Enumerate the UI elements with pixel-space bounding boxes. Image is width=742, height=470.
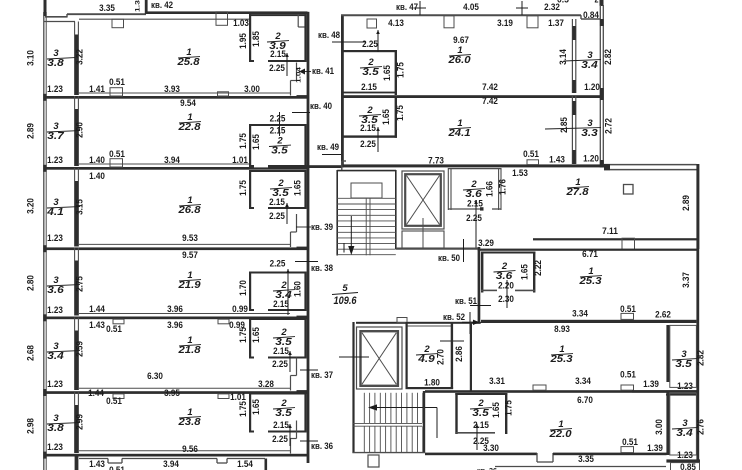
stair arrow down [350, 216, 352, 248]
bottom second line [495, 466, 666, 468]
svg-text:23.8: 23.8 [177, 417, 201, 428]
interior wall [74, 22, 76, 96]
entry step [536, 453, 538, 462]
svg-text:2.90: 2.90 [75, 122, 86, 138]
svg-text:1.75: 1.75 [238, 133, 249, 149]
svg-text:2.86: 2.86 [454, 346, 465, 362]
svg-text:1.65: 1.65 [382, 65, 393, 81]
svg-text:2.25: 2.25 [270, 259, 286, 270]
divider wall 26.0/3.4 [571, 19, 573, 93]
svg-text:25.3: 25.3 [549, 354, 573, 365]
east wall of west wing [307, 12, 310, 463]
svg-text:1.39: 1.39 [647, 443, 663, 454]
stair direction line [370, 407, 437, 409]
svg-text:2.25: 2.25 [269, 63, 285, 74]
svg-text:0.51: 0.51 [109, 149, 125, 160]
svg-text:1.76: 1.76 [498, 179, 509, 195]
room 2/3.6 box kv51 [481, 252, 483, 293]
interior wall [74, 168, 76, 247]
svg-text:21.8: 21.8 [177, 345, 201, 356]
stair treads upper [337, 197, 396, 199]
svg-text:7.42: 7.42 [482, 82, 498, 93]
svg-text:3.93: 3.93 [164, 84, 180, 95]
east wall of 27.8 [696, 164, 699, 249]
svg-text:0.51: 0.51 [109, 77, 125, 88]
svg-text:1.66: 1.66 [485, 181, 496, 197]
pier notch bottom [621, 447, 634, 453]
room 2/4.9 walls [406, 322, 408, 389]
svg-text:3.5: 3.5 [472, 408, 489, 419]
svg-text:1.39: 1.39 [643, 379, 659, 390]
svg-text:1.03: 1.03 [233, 18, 249, 29]
svg-text:3.8: 3.8 [47, 423, 64, 434]
svg-text:2.20: 2.20 [498, 281, 514, 292]
svg-text:1.65: 1.65 [251, 327, 262, 343]
svg-text:2.25: 2.25 [360, 139, 376, 150]
svg-text:2.89: 2.89 [26, 123, 37, 139]
svg-text:2.22: 2.22 [533, 260, 544, 276]
svg-text:26.0: 26.0 [447, 55, 471, 66]
svg-text:2.15: 2.15 [361, 82, 377, 93]
hall corridor wall east [478, 247, 481, 323]
svg-text:1.65: 1.65 [381, 109, 392, 125]
svg-text:25.3: 25.3 [578, 276, 602, 287]
small room box [249, 124, 251, 167]
svg-text:3.5: 3.5 [275, 408, 292, 419]
svg-text:25.8: 25.8 [176, 57, 200, 68]
svg-text:3.5: 3.5 [362, 67, 379, 78]
svg-text:3.22: 3.22 [75, 49, 86, 65]
svg-text:3.96: 3.96 [167, 320, 183, 331]
svg-text:1.23: 1.23 [47, 233, 63, 244]
svg-text:1.43: 1.43 [89, 459, 105, 470]
wall top of 25.3 [478, 249, 698, 251]
svg-text:1.75: 1.75 [238, 327, 249, 343]
svg-text:4.1: 4.1 [46, 207, 64, 218]
svg-text:1.75: 1.75 [396, 62, 407, 78]
divider wall 24.1/3.3 [571, 96, 573, 164]
elevator 2 leader [339, 356, 369, 358]
svg-text:2.59: 2.59 [75, 341, 86, 357]
svg-text:кв. 39: кв. 39 [311, 221, 333, 232]
dim tick [343, 243, 345, 253]
stair landing [351, 183, 382, 198]
svg-text:0.51: 0.51 [106, 396, 122, 407]
interior wall [74, 96, 76, 166]
svg-text:0.51: 0.51 [523, 149, 539, 160]
svg-text:1.65: 1.65 [520, 264, 531, 280]
svg-text:0.51: 0.51 [106, 324, 122, 335]
svg-text:2.15: 2.15 [269, 197, 285, 208]
svg-text:2.62: 2.62 [655, 310, 671, 321]
svg-text:3.14: 3.14 [558, 49, 569, 65]
svg-text:1.23: 1.23 [47, 155, 63, 166]
svg-text:1.65: 1.65 [251, 399, 262, 415]
svg-text:3.95: 3.95 [164, 388, 180, 399]
stair hall east wall [423, 391, 425, 453]
svg-text:2: 2 [595, 0, 599, 6]
tick [469, 312, 471, 334]
svg-text:2.25: 2.25 [269, 211, 285, 222]
svg-text:0.85: 0.85 [680, 462, 696, 470]
svg-text:3.00: 3.00 [654, 419, 665, 435]
corridor east wall [470, 322, 472, 391]
svg-text:2.25: 2.25 [272, 359, 288, 370]
svg-text:1.95: 1.95 [238, 33, 249, 49]
svg-text:3.19: 3.19 [497, 18, 513, 29]
svg-text:1.75: 1.75 [238, 180, 249, 196]
wall top of lower block [356, 322, 480, 324]
small room box [249, 393, 251, 433]
svg-text:кв. 38: кв. 38 [311, 262, 333, 273]
wall kv37/kv36 bottom [44, 454, 308, 457]
svg-text:3.96: 3.96 [167, 304, 183, 315]
svg-text:0.84: 0.84 [583, 10, 599, 21]
svg-text:1.44: 1.44 [88, 388, 104, 399]
svg-text:2.70: 2.70 [436, 349, 447, 365]
divider wall 22.0/3.4 [666, 392, 669, 455]
column [624, 185, 634, 195]
wall between 26.0 and 24.1 [341, 95, 604, 98]
right wing top exterior wall [341, 14, 581, 16]
svg-text:6.70: 6.70 [577, 395, 593, 406]
svg-text:1.65: 1.65 [251, 134, 262, 150]
svg-text:кв. 40: кв. 40 [310, 100, 332, 111]
svg-text:2.25: 2.25 [270, 114, 286, 125]
wall kv38/kv37 [44, 391, 308, 394]
west wall knobs [43, 94, 46, 101]
kv42 room1 top inner line [79, 18, 249, 20]
svg-text:26.8: 26.8 [177, 205, 201, 216]
svg-text:3.94: 3.94 [163, 459, 179, 470]
svg-text:1.85: 1.85 [251, 31, 262, 47]
dim tick 2.86 [440, 340, 464, 342]
svg-text:2.82: 2.82 [603, 49, 614, 65]
wall connecting wings [296, 165, 342, 168]
svg-text:1.3: 1.3 [135, 0, 142, 12]
svg-text:кв. 50: кв. 50 [438, 252, 460, 263]
svg-text:кв. 36: кв. 36 [477, 466, 497, 470]
elevator 2 shaft [357, 327, 403, 389]
wall bottom of 25.3 second [425, 390, 697, 393]
svg-text:5: 5 [342, 283, 348, 294]
svg-text:7.11: 7.11 [602, 226, 618, 237]
interior wall [74, 318, 76, 391]
svg-text:2.82: 2.82 [696, 350, 707, 366]
divider wall 25.3/3.5 [666, 325, 669, 382]
elevator 1 shaft [402, 171, 444, 229]
top-left wall stub [44, 0, 47, 16]
svg-text:3.3: 3.3 [581, 128, 598, 139]
porch square [368, 455, 379, 467]
svg-text:2.72: 2.72 [604, 118, 615, 134]
svg-text:9.56: 9.56 [182, 444, 198, 455]
svg-text:кв. 37: кв. 37 [311, 369, 333, 380]
leader line [279, 112, 281, 136]
svg-text:0.99: 0.99 [232, 304, 248, 315]
svg-text:2.25: 2.25 [272, 434, 288, 445]
top-right wall stub [600, 0, 604, 6]
svg-text:1.23: 1.23 [47, 379, 63, 390]
east wall lower [696, 249, 699, 463]
svg-text:0.5: 0.5 [557, 0, 569, 6]
wall under elevator 1 [396, 248, 478, 250]
right wing east wall upper [599, 19, 601, 168]
room 3/3.5 box right [670, 325, 697, 387]
svg-text:1.41: 1.41 [89, 84, 105, 95]
svg-text:2.15: 2.15 [273, 346, 289, 357]
svg-text:3.31: 3.31 [489, 376, 505, 387]
svg-text:2.15: 2.15 [270, 49, 286, 60]
svg-text:1.75: 1.75 [395, 105, 406, 121]
pier notch [216, 12, 228, 25]
small room box [249, 272, 251, 312]
svg-text:3.10: 3.10 [26, 50, 37, 66]
pier notch [397, 318, 407, 323]
stairwell upper box [336, 170, 338, 256]
svg-text:3.5: 3.5 [675, 359, 692, 370]
svg-text:2.99: 2.99 [75, 414, 86, 430]
svg-text:0.51: 0.51 [109, 465, 125, 470]
wall kv42/kv41 [44, 96, 308, 99]
kv52 leader arrow [462, 321, 477, 323]
svg-text:4.9: 4.9 [417, 354, 435, 365]
svg-text:1.20: 1.20 [583, 154, 599, 165]
svg-text:6.30: 6.30 [147, 371, 163, 382]
elevator 1 pit [402, 231, 444, 248]
apartment kv42 top exterior wall [45, 16, 67, 18]
svg-text:3.8: 3.8 [47, 58, 64, 69]
svg-text:3.4: 3.4 [47, 351, 64, 362]
svg-text:1.43: 1.43 [89, 320, 105, 331]
svg-text:2.76: 2.76 [696, 419, 707, 435]
svg-text:кв. 48: кв. 48 [318, 29, 340, 40]
wall kv39/kv38 [44, 317, 308, 320]
svg-text:3.37: 3.37 [681, 272, 692, 288]
svg-text:1.23: 1.23 [47, 442, 63, 453]
svg-text:1.20: 1.20 [584, 82, 600, 93]
svg-text:2.15: 2.15 [273, 299, 289, 310]
east edge steps [296, 63, 298, 81]
stair bottom line [337, 254, 396, 256]
stair hall bottom [352, 452, 425, 454]
hatched wall bottom right [666, 459, 700, 462]
wall kv41/kv40 [44, 167, 308, 170]
svg-text:9.54: 9.54 [180, 98, 196, 109]
pier 27.8/25.3 [622, 238, 635, 249]
svg-text:3.28: 3.28 [258, 379, 274, 390]
svg-text:2.30: 2.30 [498, 294, 514, 305]
svg-text:1.40: 1.40 [89, 155, 105, 166]
svg-text:7.42: 7.42 [482, 96, 498, 107]
dim ticks top [419, 1, 421, 15]
pier in 3.9 corner [297, 14, 299, 27]
small room box [249, 170, 251, 209]
svg-text:1.23: 1.23 [47, 305, 63, 316]
small room box [249, 318, 251, 359]
svg-text:2.25: 2.25 [466, 213, 482, 224]
svg-text:кв. 42: кв. 42 [151, 0, 173, 10]
svg-text:9.53: 9.53 [182, 233, 198, 244]
svg-text:1.65: 1.65 [293, 180, 304, 196]
svg-text:1.40: 1.40 [89, 171, 105, 182]
svg-text:8.93: 8.93 [554, 324, 570, 335]
svg-text:кв. 41: кв. 41 [312, 65, 334, 76]
room 2/3.6 box kv50 [447, 168, 449, 210]
stair hall west wall [352, 322, 354, 453]
svg-text:2.68: 2.68 [26, 345, 37, 361]
svg-text:2.15: 2.15 [273, 420, 289, 431]
svg-text:109.6: 109.6 [334, 295, 358, 307]
svg-text:2.15: 2.15 [473, 420, 489, 431]
svg-text:3.6: 3.6 [47, 285, 64, 296]
thin inner lines above strip walls [79, 92, 290, 94]
svg-text:2.89: 2.89 [681, 195, 692, 211]
svg-text:1.23: 1.23 [677, 450, 693, 461]
svg-text:1.23: 1.23 [47, 84, 63, 95]
svg-text:1.65: 1.65 [491, 402, 502, 418]
pier notch 25.3 [621, 313, 634, 319]
svg-text:3.35: 3.35 [578, 454, 594, 465]
east edge stubs at walls [297, 95, 310, 98]
wall bottom of 27.8 [533, 238, 697, 240]
stair treads lower [363, 393, 365, 424]
svg-text:3.29: 3.29 [478, 238, 494, 249]
svg-text:2.80: 2.80 [26, 275, 37, 291]
svg-text:3.7: 3.7 [47, 131, 64, 142]
svg-text:3.30: 3.30 [483, 443, 499, 454]
svg-text:3.00: 3.00 [244, 84, 260, 95]
svg-text:21.9: 21.9 [177, 280, 201, 291]
pier notch [112, 19, 124, 28]
svg-text:4.13: 4.13 [388, 18, 404, 29]
svg-text:3.4: 3.4 [581, 60, 598, 71]
svg-text:3.35: 3.35 [99, 3, 115, 14]
svg-text:4.05: 4.05 [463, 2, 479, 13]
svg-text:6.71: 6.71 [582, 249, 598, 260]
svg-text:3.4: 3.4 [676, 428, 693, 439]
room 2/3.5 box B [341, 135, 397, 137]
room 3/3.4 box right [670, 394, 697, 456]
balcony 0.85 box [671, 463, 700, 470]
room 2/3.5 box kv36r [455, 393, 457, 434]
svg-text:0.51: 0.51 [620, 304, 636, 315]
pier notch strip B [527, 160, 539, 165]
svg-text:1.01: 1.01 [232, 155, 248, 166]
window square [367, 19, 377, 28]
svg-text:22.0: 22.0 [548, 429, 572, 440]
svg-text:1.04: 1.04 [296, 67, 303, 83]
room 2/3.5 box A [341, 50, 397, 52]
svg-text:кв. 36: кв. 36 [311, 440, 333, 451]
pier [527, 16, 538, 28]
svg-text:2.75: 2.75 [75, 276, 86, 292]
svg-text:1.70: 1.70 [238, 280, 249, 296]
svg-text:3.34: 3.34 [575, 376, 591, 387]
svg-text:2.85: 2.85 [559, 117, 570, 133]
svg-text:3.94: 3.94 [164, 155, 180, 166]
svg-text:0.51: 0.51 [620, 370, 636, 381]
svg-text:1.37: 1.37 [548, 18, 564, 29]
svg-text:1.54: 1.54 [237, 459, 253, 470]
svg-text:кв. 51: кв. 51 [455, 295, 477, 306]
svg-text:кв. 52: кв. 52 [443, 311, 465, 322]
svg-text:9.57: 9.57 [182, 250, 198, 261]
svg-text:3.15: 3.15 [75, 199, 86, 215]
bottom wall 22.0 west [425, 453, 537, 456]
svg-text:1.75: 1.75 [238, 401, 249, 417]
right wing west wall [341, 15, 344, 168]
svg-text:кв. 49: кв. 49 [317, 141, 339, 152]
svg-text:22.8: 22.8 [177, 122, 201, 133]
svg-text:1.60: 1.60 [293, 281, 304, 297]
wall bottom of 25.3 [481, 320, 696, 323]
svg-text:27.8: 27.8 [565, 187, 589, 198]
svg-text:7.73: 7.73 [428, 156, 444, 167]
wall bottom of strip B [341, 164, 604, 167]
pier notch b [621, 385, 634, 390]
svg-text:1.53: 1.53 [512, 168, 528, 179]
svg-text:3.5: 3.5 [271, 146, 288, 157]
svg-text:0.51: 0.51 [622, 437, 638, 448]
outer west wall [43, 12, 45, 470]
pier [444, 16, 454, 28]
svg-text:3.34: 3.34 [572, 309, 588, 320]
small room box [249, 14, 251, 62]
wall kv40/kv39 [44, 247, 308, 250]
inner line [408, 325, 452, 327]
partial bottom strip walls [75, 456, 79, 470]
svg-text:1.44: 1.44 [89, 304, 105, 315]
svg-text:3.20: 3.20 [26, 198, 37, 214]
svg-text:2.25: 2.25 [362, 39, 378, 50]
svg-text:2.15: 2.15 [360, 123, 376, 134]
svg-text:24.1: 24.1 [447, 128, 471, 139]
interior wall [74, 392, 76, 453]
interior wall [74, 248, 76, 316]
svg-text:1.75: 1.75 [504, 400, 515, 416]
svg-text:2.98: 2.98 [26, 418, 37, 434]
svg-text:1.80: 1.80 [424, 378, 440, 389]
bottom wall 22.0 east [553, 453, 667, 456]
svg-text:1.43: 1.43 [549, 155, 565, 166]
pier notch a [533, 385, 546, 390]
svg-text:кв. 47: кв. 47 [396, 1, 418, 12]
